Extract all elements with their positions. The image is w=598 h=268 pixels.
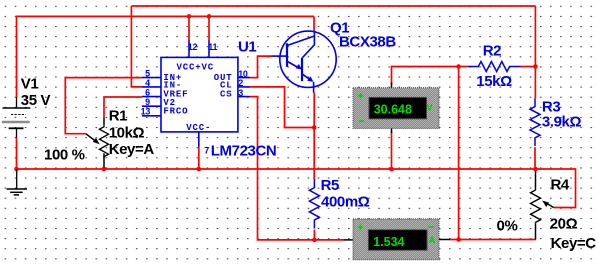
svg-text:0%: 0%	[497, 217, 518, 234]
transistor Q1 BCX38B (darlington)	[272, 31, 337, 93]
svg-text:30.648: 30.648	[374, 102, 412, 116]
junction voltmeter bottom bus	[389, 167, 394, 172]
svg-text:3.9kΩ: 3.9kΩ	[542, 114, 582, 131]
wire pin11	[208, 16, 210, 40]
junction R3 bottom / R4 top bus	[533, 167, 538, 172]
junction R2 left / voltmeter	[456, 64, 461, 69]
svg-text:2: 2	[238, 78, 243, 88]
junction pin11 rail	[207, 14, 212, 19]
wire pin3 CS to ammeter left	[250, 97, 344, 240]
wire pin2 CL to emitter node	[250, 87, 314, 128]
wire ground bus y=169	[17, 168, 536, 170]
wire R3 bottom to bus	[534, 147, 536, 169]
ammeter right stub	[439, 239, 450, 241]
wire x131 down to pin4 IN-	[131, 6, 142, 87]
svg-text:U1: U1	[238, 39, 256, 56]
svg-text:LM723CN: LM723CN	[211, 142, 277, 159]
svg-text:13: 13	[141, 107, 151, 117]
voltmeter bottom stub	[391, 128, 393, 133]
svg-text:12: 12	[188, 42, 198, 52]
svg-text:3: 3	[238, 88, 243, 98]
resistor R3	[530, 98, 540, 146]
wire V1 bottom to bus	[16, 137, 18, 169]
wire V1 top to Q1 collector y=16.4	[17, 16, 315, 97]
wire R1 top to pin6 VREF	[104, 97, 142, 117]
svg-text:100 %: 100 %	[44, 147, 85, 164]
potentiometer R1	[86, 117, 109, 167]
svg-text:VCC+VC: VCC+VC	[177, 63, 215, 73]
wire R5 bottom	[313, 230, 315, 240]
wire Q1 emitter to R5	[313, 93, 315, 180]
svg-text:11: 11	[208, 42, 217, 52]
U1 pin stubs	[142, 41, 250, 147]
ground	[7, 169, 28, 195]
wire ammeter right to R4 bottom	[450, 239, 536, 241]
svg-text:4: 4	[145, 78, 150, 88]
wire pin7 to ground bus	[198, 147, 200, 170]
svg-text:V1: V1	[21, 76, 39, 93]
svg-text:20Ω: 20Ω	[550, 216, 578, 233]
svg-text:R2: R2	[483, 43, 501, 60]
svg-text:1.534: 1.534	[373, 235, 404, 249]
junction R5 bottom	[312, 238, 317, 243]
resistor R2	[468, 62, 520, 72]
svg-text:Key=A: Key=A	[109, 141, 155, 158]
svg-text:R1: R1	[109, 108, 127, 125]
svg-text:6: 6	[145, 87, 150, 97]
svg-text:400mΩ: 400mΩ	[321, 194, 370, 211]
svg-text:7: 7	[204, 146, 209, 156]
junction Q1 emitter / pin2 CL	[312, 125, 317, 130]
voltmeter body	[353, 88, 439, 129]
op-amp U1 LM723CN body	[161, 57, 238, 131]
junction R1 bottom bus	[102, 167, 107, 172]
junction V1 ground bus	[14, 167, 19, 172]
wire right rail top	[534, 6, 536, 67]
svg-text:10kΩ: 10kΩ	[109, 124, 145, 141]
wire R2 right lead to corner	[520, 66, 536, 68]
junction ammeter right / R4 bottom	[456, 237, 461, 242]
ammeter body	[353, 219, 439, 260]
svg-text:BCX38B: BCX38B	[339, 34, 396, 51]
junction pin12 rail	[187, 14, 192, 19]
wire R2 left down to ammeter right	[458, 67, 460, 240]
svg-text:A: A	[429, 235, 436, 245]
wire R4 wiper loop	[536, 169, 576, 208]
wire R2 left lead	[459, 66, 468, 68]
battery V1	[2, 97, 31, 138]
svg-text:CS: CS	[220, 90, 233, 100]
svg-text:FRCO: FRCO	[163, 107, 188, 117]
wire R2 junction to R3 top	[534, 67, 536, 99]
svg-text:VCC-: VCC-	[186, 123, 211, 133]
svg-text:35 V: 35 V	[21, 92, 51, 109]
junction pin7 bus	[197, 167, 202, 172]
svg-text:R5: R5	[321, 177, 339, 194]
ammeter left stub	[344, 239, 354, 241]
svg-text:R4: R4	[551, 176, 570, 193]
wire pin5 IN+ to R1 wiper	[65, 78, 142, 134]
svg-text:15kΩ: 15kΩ	[476, 73, 512, 90]
junction R2 right / R3 top	[533, 64, 538, 69]
svg-text:Key=C: Key=C	[551, 235, 597, 252]
wire voltmeter top to R2 left	[392, 67, 459, 86]
svg-text:5: 5	[145, 68, 150, 78]
wire voltmeter bottom to bus	[391, 132, 393, 170]
svg-text:9: 9	[145, 97, 150, 107]
voltmeter top stub	[391, 83, 393, 89]
wire Q1 collector stub	[313, 16, 315, 30]
svg-text:V: V	[426, 103, 432, 113]
wire pin12	[188, 16, 190, 40]
potentiometer R4	[531, 171, 554, 240]
resistor R5	[309, 179, 319, 228]
wire pin10 OUT to Q1 base	[250, 56, 272, 78]
wire top rail y=6	[131, 5, 535, 7]
